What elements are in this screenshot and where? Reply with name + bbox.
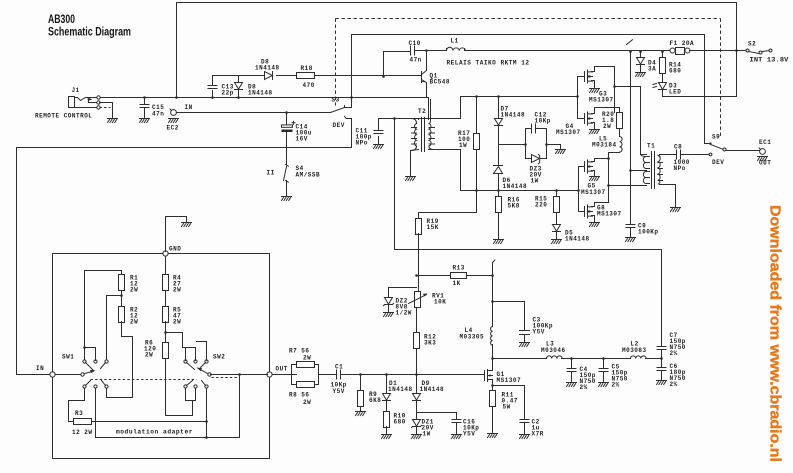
svg-text:SW1: SW1 xyxy=(62,354,74,361)
svg-text:2W: 2W xyxy=(173,319,181,326)
wire GND to R1/R4 xyxy=(165,257,167,275)
wire supply box bottom segment xyxy=(705,96,737,98)
svg-text:1N4148: 1N4148 xyxy=(255,65,280,72)
wire T2 secondary top xyxy=(427,98,429,120)
svg-text:OUT: OUT xyxy=(759,160,771,167)
wire R1 top link xyxy=(85,271,122,361)
svg-text:MS1307: MS1307 xyxy=(497,377,522,384)
terminal OUT xyxy=(267,366,288,378)
svg-text:47n: 47n xyxy=(410,57,422,64)
ground C16 xyxy=(452,435,462,439)
wire G3 drain to R20 node xyxy=(595,67,615,113)
ground DZ3 net xyxy=(556,150,566,154)
switch SW2 xyxy=(184,354,225,389)
svg-text:2W: 2W xyxy=(173,287,181,294)
zener DZ2 xyxy=(384,288,417,317)
inductor L1 relay coil xyxy=(447,38,466,51)
svg-text:J1: J1 xyxy=(72,87,80,94)
watermark text www.cbradio.nl xyxy=(767,205,784,462)
connector EC1 OUT xyxy=(758,139,772,167)
svg-text:Y5V: Y5V xyxy=(333,388,345,395)
svg-text:EC1: EC1 xyxy=(759,139,771,146)
svg-text:3K3: 3K3 xyxy=(424,340,436,347)
mosfet G1 xyxy=(483,370,522,386)
svg-text:M03305: M03305 xyxy=(460,334,485,341)
capacitor C7 xyxy=(657,332,686,359)
wire S9 pole riser x=704.7 xyxy=(705,35,710,144)
wire EC2 to S3 pole xyxy=(177,112,331,114)
wire gate bus y=190.6 xyxy=(461,190,579,192)
diode D4 xyxy=(637,52,657,73)
node L3 tap xyxy=(491,357,494,360)
wire D3 to box edge y=96 xyxy=(663,96,705,98)
svg-text:2%: 2% xyxy=(670,350,678,357)
resistor R5 xyxy=(163,307,182,326)
svg-text:R18: R18 xyxy=(301,65,313,72)
resistor R15 xyxy=(535,191,560,225)
ground D5 xyxy=(552,240,562,244)
node C5 xyxy=(602,357,605,360)
node gate riser / y97 xyxy=(576,95,579,98)
node D4 tap xyxy=(639,50,642,53)
resistor R1 xyxy=(119,275,139,294)
wire R6 bottom to SW2 xyxy=(166,359,193,416)
wire inner bypass line y=34.6 xyxy=(352,34,705,36)
ground R16 xyxy=(494,240,504,244)
svg-text:2W: 2W xyxy=(130,287,138,294)
node supply tap on relay line xyxy=(629,50,632,53)
svg-text:BC548: BC548 xyxy=(430,79,451,86)
ground C11 xyxy=(374,145,384,149)
svg-text:GND: GND xyxy=(169,246,181,253)
node SW1 top xyxy=(83,346,86,349)
resistor R10 xyxy=(384,412,406,435)
node D9 xyxy=(415,373,418,376)
wire L2 to C7 node xyxy=(646,358,662,360)
ground chassis above GND xyxy=(182,223,192,227)
modulation adapter box xyxy=(53,254,270,459)
svg-text:DEV: DEV xyxy=(333,122,345,129)
node Q1 base branch xyxy=(382,75,385,78)
ground G3 xyxy=(590,89,600,93)
led D3 xyxy=(653,83,681,97)
ground C4 xyxy=(567,383,577,387)
wire DZ3 box to ground xyxy=(547,145,561,150)
schematic title xyxy=(48,12,131,39)
diode D8 shunt xyxy=(235,76,273,98)
svg-text:680: 680 xyxy=(394,419,406,426)
wire D7 node to C12 box xyxy=(499,144,526,146)
svg-text:22p: 22p xyxy=(222,90,234,97)
svg-text:2W: 2W xyxy=(303,355,311,362)
ground G5 xyxy=(590,177,600,181)
connector J1 remote control jack xyxy=(35,87,100,120)
node bus/C15 xyxy=(143,96,146,99)
wire feedback loop x=395 / y=249.5 / x=661.3 xyxy=(395,119,662,347)
wire T1 secondary bottom to ground xyxy=(660,185,676,208)
diode D8 series xyxy=(255,59,280,80)
mosfet G4 xyxy=(556,108,615,137)
node D1 xyxy=(385,373,388,376)
node on box edge xyxy=(735,49,738,52)
mosfet G8 xyxy=(579,203,622,223)
inductor L3 xyxy=(541,341,566,359)
ground C3 xyxy=(520,343,530,347)
svg-text:R8 56: R8 56 xyxy=(289,392,310,399)
ground T1 xyxy=(671,208,681,212)
capacitor C9 xyxy=(626,223,659,237)
wire drain tie to T1 primary bottom xyxy=(609,185,647,187)
wire J1 ring dashed stub xyxy=(100,107,111,109)
inductor L4 xyxy=(460,327,493,346)
wire main audio bus y=97 xyxy=(100,97,427,99)
node R17 gate bus crossing xyxy=(475,189,478,192)
svg-text:1K: 1K xyxy=(453,280,461,287)
svg-text:RELAIS TAIKO RKTM 12: RELAIS TAIKO RKTM 12 xyxy=(447,60,530,67)
svg-text:5K8: 5K8 xyxy=(508,203,520,210)
svg-text:OUT: OUT xyxy=(276,366,288,373)
wire J1 sleeve to ground xyxy=(100,103,113,118)
svg-text:M03184: M03184 xyxy=(592,142,617,149)
switch SW1 xyxy=(62,354,108,389)
svg-text:10Kp: 10Kp xyxy=(535,118,551,125)
wire L1 to F1 xyxy=(465,50,671,52)
svg-text:15K: 15K xyxy=(427,224,439,231)
svg-text:M03083: M03083 xyxy=(622,347,647,354)
wire IN to SW1 pole xyxy=(56,374,81,376)
switch S3 xyxy=(331,97,347,130)
svg-text:6K8: 6K8 xyxy=(369,397,381,404)
node R9 xyxy=(359,373,362,376)
wire R19 column RV1 R12 xyxy=(416,308,418,375)
svg-text:1/2W: 1/2W xyxy=(396,310,412,317)
node drain tie to T1 xyxy=(607,184,610,187)
terminal GND xyxy=(163,217,187,257)
mosfet G3 xyxy=(578,67,614,104)
svg-text:EC2: EC2 xyxy=(167,125,179,132)
capacitor C1 xyxy=(319,364,483,396)
wire T1 secondary top to C8 xyxy=(660,154,677,156)
svg-text:F1 20A: F1 20A xyxy=(670,40,695,47)
svg-text:2W: 2W xyxy=(303,399,311,406)
resistor R4 xyxy=(163,275,182,294)
inductor L2 xyxy=(622,341,647,359)
capacitor C12 with zener DZ3 loop xyxy=(526,112,551,159)
diode D5 xyxy=(553,225,590,243)
node OUT drop xyxy=(238,373,241,376)
capacitor C5 xyxy=(599,359,628,389)
switch S4 AM/SSB xyxy=(267,165,321,196)
svg-text:L1: L1 xyxy=(451,38,459,45)
svg-text:1N4148: 1N4148 xyxy=(503,183,528,190)
svg-text:12 2W: 12 2W xyxy=(72,429,93,436)
ground C9 xyxy=(626,238,636,242)
ground C6 xyxy=(657,381,667,385)
svg-text:C1: C1 xyxy=(335,364,343,371)
capacitor C2 xyxy=(493,386,544,438)
ground C15 xyxy=(140,119,150,123)
node C4 xyxy=(570,357,573,360)
capacitor C6 xyxy=(657,359,686,389)
wire SW1 top link xyxy=(85,348,96,361)
node feedback tap xyxy=(393,117,396,120)
svg-text:2%: 2% xyxy=(612,382,620,389)
svg-text:M03046: M03046 xyxy=(541,347,566,354)
wire R4-R5 xyxy=(165,291,167,307)
capacitor C14 xyxy=(282,113,312,165)
svg-text:R3: R3 xyxy=(75,410,83,417)
wire drain to L3 xyxy=(493,358,547,360)
resistor R16 xyxy=(496,191,520,240)
capacitor C16 xyxy=(417,413,480,438)
trimmer RV1 xyxy=(409,292,447,308)
ground T2 xyxy=(406,177,416,181)
ground DZ1 xyxy=(412,435,422,439)
node C14/IN wire xyxy=(285,111,288,114)
svg-text:MS1307: MS1307 xyxy=(581,189,606,196)
svg-text:Y5V: Y5V xyxy=(463,431,475,438)
svg-text:2%: 2% xyxy=(670,381,678,388)
wire C11 to T2 primary xyxy=(379,119,419,120)
ground C2 xyxy=(520,435,530,439)
wire S3 throw riser x=351.8 xyxy=(346,35,352,108)
zener DZ1 xyxy=(412,419,434,438)
switch S9 DEV xyxy=(709,134,726,167)
node G1 source xyxy=(491,384,494,387)
svg-text:S9: S9 xyxy=(712,134,720,141)
wire supply rail x=630 xyxy=(630,52,632,225)
ground S4 xyxy=(282,197,292,201)
resistor R2 xyxy=(119,307,139,326)
node R15 on gate bus xyxy=(555,189,558,192)
resistor R18 xyxy=(297,65,315,89)
ground EC2 xyxy=(169,119,179,123)
dashed gang link SW1-SW2 xyxy=(91,378,239,380)
svg-text:16V: 16V xyxy=(296,136,308,143)
zener DZ3 xyxy=(530,155,542,185)
node R1/R2 xyxy=(120,294,123,297)
svg-text:1W: 1W xyxy=(423,431,431,438)
ground R9 xyxy=(356,412,366,416)
svg-text:X7R: X7R xyxy=(532,431,544,438)
node DZ3 box right xyxy=(545,143,548,146)
svg-text:3A: 3A xyxy=(648,66,656,73)
svg-text:1N4148: 1N4148 xyxy=(248,90,273,97)
svg-text:2%: 2% xyxy=(580,384,588,391)
transformer T1 xyxy=(631,143,663,189)
svg-text:2W: 2W xyxy=(603,123,611,130)
terminal IN xyxy=(36,365,55,377)
node R14 tap xyxy=(661,50,664,53)
diode D1 xyxy=(383,375,413,412)
ground C5 xyxy=(599,383,609,387)
node bus/box-left xyxy=(175,96,178,99)
svg-text:INT 13.8V: INT 13.8V xyxy=(750,57,789,64)
wire R5-R6 and SW2 branch xyxy=(166,322,183,348)
connector EC2 IN xyxy=(167,104,193,132)
ground D4 xyxy=(636,73,646,77)
svg-text:1W: 1W xyxy=(459,142,467,149)
node drain junction xyxy=(613,85,616,88)
diode D6 xyxy=(494,145,528,191)
node bus/S3 riser xyxy=(350,96,353,99)
svg-text:Y5V: Y5V xyxy=(533,329,545,336)
wire R17 bottom to R19 xyxy=(419,213,477,219)
node R13 right xyxy=(491,274,494,277)
svg-text:1W: 1W xyxy=(531,178,539,185)
svg-text:220: 220 xyxy=(535,202,547,209)
resistor R19 xyxy=(416,218,439,292)
ground G4 xyxy=(590,130,600,134)
wire R2 bottom to SW1 xyxy=(107,322,133,398)
svg-text:C8: C8 xyxy=(674,144,682,151)
inductor L5 xyxy=(592,136,622,203)
svg-text:R7 56: R7 56 xyxy=(289,348,310,355)
node bus/D8 xyxy=(237,96,240,99)
svg-text:II: II xyxy=(267,170,275,177)
wire DEV contact S3 to left rail xyxy=(17,119,352,375)
capacitor C15 xyxy=(140,98,164,119)
svg-text:R13: R13 xyxy=(453,265,465,272)
wire OUT to R7R8 xyxy=(273,374,297,376)
svg-text:C10: C10 xyxy=(409,40,421,47)
capacitor C13 xyxy=(208,76,234,98)
resistor R6 xyxy=(144,340,169,359)
svg-text:MS1307: MS1307 xyxy=(589,97,614,104)
svg-text:Downloaded from www.cbradio.nl: Downloaded from www.cbradio.nl xyxy=(767,205,784,462)
wire G3/G4 gate riser xyxy=(577,77,579,119)
wire T2 primary bottom to ground xyxy=(411,150,419,176)
svg-text:T1: T1 xyxy=(647,143,655,150)
resistor R12 xyxy=(414,333,437,349)
svg-text:1N4148: 1N4148 xyxy=(565,236,590,243)
svg-text:S3: S3 xyxy=(332,97,340,104)
ground DZ2 xyxy=(384,313,394,317)
capacitor C11 xyxy=(356,119,384,147)
wire S9 to EC1 xyxy=(727,150,761,152)
node loop bottom xyxy=(205,436,208,439)
capacitor C10 xyxy=(384,40,447,77)
wire center tap xyxy=(631,170,647,172)
node D7 top xyxy=(497,95,500,98)
svg-text:680: 680 xyxy=(669,68,681,75)
wire SW1 bottom contacts xyxy=(69,389,107,438)
svg-text:1N4148: 1N4148 xyxy=(388,386,413,393)
svg-text:REMOTE CONTROL: REMOTE CONTROL xyxy=(35,113,92,120)
svg-text:MS1307: MS1307 xyxy=(556,129,581,136)
node T1 center tap xyxy=(629,169,632,172)
capacitor C3 xyxy=(493,302,554,343)
ground R11 xyxy=(488,434,498,438)
resistor R13 xyxy=(417,265,493,288)
svg-text:SW2: SW2 xyxy=(213,354,225,361)
wire R3 to SW2 xyxy=(92,389,207,422)
svg-text:2W: 2W xyxy=(130,319,138,326)
node R17 top xyxy=(475,95,478,98)
node G5 drain / L5 xyxy=(607,157,610,160)
svg-text:IN: IN xyxy=(185,104,193,111)
fuse F1 xyxy=(670,40,695,55)
node bus/C13 xyxy=(211,96,214,99)
wire C13 top branch y=75.8 xyxy=(213,75,421,77)
resistor R14 xyxy=(660,52,682,83)
svg-text:NPo: NPo xyxy=(674,165,686,172)
resistor R3 xyxy=(72,410,93,436)
svg-text:NPo: NPo xyxy=(356,140,368,147)
svg-text:AM/SSB: AM/SSB xyxy=(296,172,321,179)
node R3 tie xyxy=(205,420,208,423)
resistor R20 xyxy=(602,108,623,137)
svg-text:2W: 2W xyxy=(145,352,153,359)
resistor R17 xyxy=(458,97,480,213)
wire supply box right x=736 xyxy=(736,3,738,97)
wire G5/G8 gate riser xyxy=(578,167,580,212)
svg-text:5W: 5W xyxy=(503,404,511,411)
terminal tick drain line xyxy=(493,260,495,263)
resistor R7 xyxy=(289,348,319,385)
node DZ3 box left xyxy=(524,143,527,146)
node R13 tap xyxy=(415,274,418,277)
resistor R8 xyxy=(289,365,319,407)
capacitor C4 xyxy=(567,359,596,392)
resistor R9 xyxy=(358,375,382,412)
transformer T2 xyxy=(411,100,435,152)
svg-text:T2: T2 xyxy=(418,108,426,115)
node D6/R16 on gate bus xyxy=(497,189,500,192)
ground G8 xyxy=(590,223,600,227)
svg-text:MS1307: MS1307 xyxy=(597,211,622,218)
dashed DEV linkage box xyxy=(336,19,721,138)
wire supply box top y=3 xyxy=(177,2,737,4)
ground R10 xyxy=(382,435,392,439)
node R5/R6 xyxy=(164,331,167,334)
wire F1 to S2 xyxy=(690,50,747,52)
wire T2 secondary bottom to gate bus xyxy=(429,150,461,191)
mosfet G5 xyxy=(579,159,609,197)
wire SW2 bottom links xyxy=(186,389,196,401)
svg-text:IN: IN xyxy=(36,365,44,372)
node C3 tap xyxy=(491,300,494,303)
wire SW2 pole to OUT xyxy=(211,374,268,376)
diode D7 xyxy=(495,97,526,145)
node gate bus right end xyxy=(577,189,580,192)
svg-text:S2: S2 xyxy=(748,41,756,48)
wire supply box left x=176 xyxy=(176,3,178,98)
switch S2 INT xyxy=(746,41,789,64)
svg-text:DEV: DEV xyxy=(712,159,724,166)
svg-text:LED: LED xyxy=(669,89,681,96)
wire drain node to T1 top xyxy=(615,87,647,155)
svg-text:47n: 47n xyxy=(152,111,164,118)
svg-text:1N4148: 1N4148 xyxy=(501,112,526,119)
svg-text:470: 470 xyxy=(303,82,315,89)
svg-text:100Kp: 100Kp xyxy=(638,229,659,236)
svg-text:10K: 10K xyxy=(434,299,446,306)
resistor R11 xyxy=(490,386,518,434)
wire y=97 supply of driver xyxy=(419,97,578,119)
node C10/L1/Q1 collector xyxy=(425,49,428,52)
wire OUT drop loop xyxy=(96,375,240,438)
svg-text:Schematic Diagram: Schematic Diagram xyxy=(48,25,131,39)
capacitor C8 xyxy=(674,144,710,173)
wire R1-R2 junction branch xyxy=(107,291,122,361)
ground J1 xyxy=(108,119,118,123)
node C7/C6 xyxy=(660,357,663,360)
tick above supply rail xyxy=(627,40,633,45)
diode D9 xyxy=(413,375,445,420)
svg-text:1N4148: 1N4148 xyxy=(420,386,445,393)
wire drain column x=493 xyxy=(492,263,494,371)
